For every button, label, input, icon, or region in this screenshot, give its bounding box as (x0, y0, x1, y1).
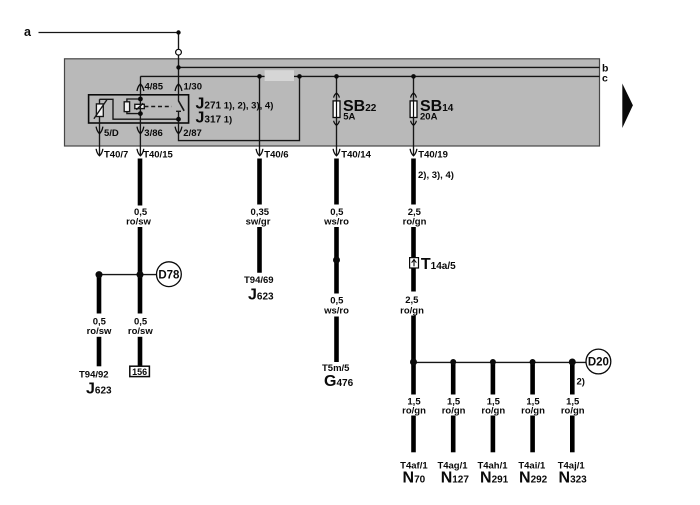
svg-text:D78: D78 (158, 269, 180, 281)
svg-text:3/86: 3/86 (144, 128, 163, 139)
svg-text:a: a (24, 25, 32, 39)
svg-text:T40/19: T40/19 (418, 150, 448, 161)
svg-text:2,5: 2,5 (405, 295, 419, 306)
svg-text:T40/15: T40/15 (143, 150, 173, 161)
svg-text:ro/gn: ro/gn (402, 406, 426, 417)
svg-text:T94/69: T94/69 (244, 275, 274, 286)
svg-text:c: c (602, 73, 608, 85)
svg-text:T40/14: T40/14 (341, 150, 371, 161)
svg-text:156: 156 (132, 367, 147, 377)
svg-text:ro/gn: ro/gn (521, 406, 545, 417)
svg-text:20A: 20A (420, 112, 438, 123)
svg-text:2), 3), 4): 2), 3), 4) (418, 170, 454, 181)
svg-text:sw/gr: sw/gr (246, 217, 271, 228)
svg-text:ro/gn: ro/gn (481, 406, 505, 417)
svg-text:ro/gn: ro/gn (442, 406, 466, 417)
svg-text:2): 2) (577, 377, 585, 388)
svg-text:ro/sw: ro/sw (87, 326, 112, 337)
svg-text:5A: 5A (343, 112, 355, 123)
svg-text:2/87: 2/87 (183, 128, 202, 139)
svg-text:ws/ro: ws/ro (323, 217, 349, 228)
svg-text:T40/7: T40/7 (104, 150, 128, 161)
svg-text:4/85: 4/85 (145, 82, 164, 93)
svg-text:D20: D20 (588, 357, 609, 369)
svg-text:5/D: 5/D (104, 128, 119, 139)
svg-text:ro/sw: ro/sw (128, 326, 153, 337)
svg-text:T94/92: T94/92 (79, 370, 109, 381)
svg-text:ro/gn: ro/gn (400, 306, 424, 317)
svg-text:T40/6: T40/6 (264, 150, 288, 161)
svg-text:ro/sw: ro/sw (126, 217, 151, 228)
svg-text:ws/ro: ws/ro (323, 306, 349, 317)
svg-text:1/30: 1/30 (184, 82, 203, 93)
svg-text:ro/gn: ro/gn (403, 217, 427, 228)
svg-text:ro/gn: ro/gn (561, 406, 585, 417)
